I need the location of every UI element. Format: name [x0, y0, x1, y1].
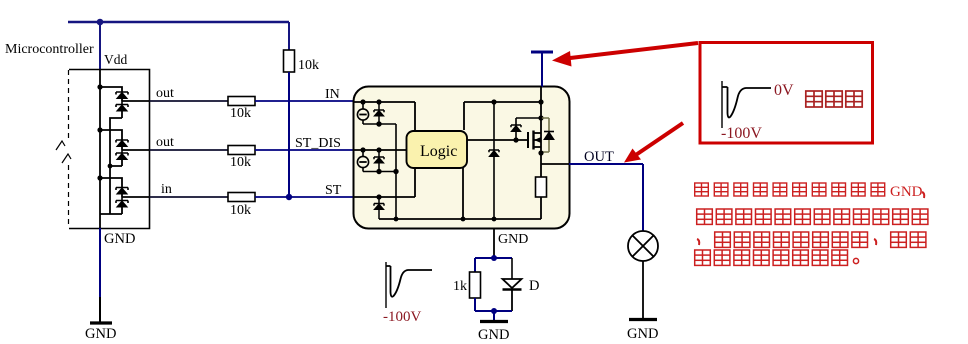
junction ST_DIS / current source 2 [360, 147, 365, 152]
transistor M1 source tap [534, 146, 542, 148]
wire resistor to IN pin [255, 100, 353, 102]
junction IN / clamp diode 1 [376, 99, 381, 104]
microcontroller box solid edges [69, 70, 150, 229]
wire in3 inside box [122, 196, 150, 198]
junction cell2 bottom / sink rail [393, 169, 398, 174]
wire IN inside IC [353, 102, 415, 130]
diode upper cell3 [116, 188, 128, 198]
wire GND branch vertical upper [493, 102, 495, 150]
wire tap cell3 [100, 178, 122, 188]
wire GND pin external [493, 229, 495, 258]
wire cell2 return [110, 166, 122, 214]
wire snubber right drop [511, 258, 513, 279]
transistor M1 gate bar [527, 132, 529, 148]
wire pullup from Vdd rail [288, 22, 290, 50]
svg-text:-100V: -100V [383, 309, 421, 325]
clamp diode D1 [374, 102, 384, 124]
body diode branch wire [541, 118, 549, 152]
wire Vdd drop into microcontroller [99, 22, 101, 70]
text red note line3 [697, 232, 926, 247]
wire resistor to ST_DIS pin [255, 149, 353, 151]
svg-text:10k: 10k [298, 58, 319, 73]
junction cell2 bottom / diode [376, 169, 381, 174]
body diode D6 [544, 132, 554, 140]
diode lower cell2 [116, 150, 128, 166]
junction ST / clamp diode 3 [376, 194, 381, 199]
wire internal bottom rail [379, 218, 541, 220]
wire OUT external [569, 164, 643, 231]
IC driver body U1 [354, 87, 570, 229]
wire tap cell2 [100, 130, 122, 140]
terminal top T-bar [531, 51, 553, 54]
wire snubber top [475, 257, 512, 259]
waveform sketch -100V (bottom) [386, 262, 432, 308]
wire top terminal to IC [541, 52, 543, 87]
wire snubber left drop [474, 258, 476, 272]
svg-text:GND: GND [478, 327, 509, 343]
diode lower cell1 [116, 101, 128, 118]
svg-text:GND: GND [498, 232, 528, 247]
wire out2 inside box [122, 149, 150, 151]
svg-text:out: out [156, 86, 174, 101]
wire tap cell1 [100, 87, 122, 92]
junction top wire / GND branch [491, 99, 496, 104]
svg-text:OUT: OUT [584, 149, 614, 165]
wire cell1 return [110, 118, 122, 166]
wire microcontroller GND lead [99, 228, 101, 297]
svg-text:0V: 0V [774, 82, 794, 99]
wire OUT inside IC [541, 163, 570, 165]
junction cell1 bottom / diode [376, 121, 381, 126]
text red note line2 [697, 209, 928, 224]
wire below 1k [474, 298, 476, 311]
wire cell2 bottom [363, 171, 396, 173]
wire logic to gate [467, 139, 528, 141]
svg-text:out: out [156, 135, 174, 150]
transistor M1 body tap with arrow [534, 139, 542, 141]
wire drain vertical inside IC [540, 86, 542, 164]
node tap cell3 [97, 175, 102, 180]
diode D [503, 279, 522, 311]
svg-text:GND: GND [104, 231, 135, 247]
wire out1 to resistor [150, 100, 229, 102]
diode D4 on GND branch [489, 150, 499, 219]
wire to ground [493, 311, 495, 320]
diode upper cell1 [116, 92, 128, 101]
resistor R 10k pullup [284, 50, 295, 72]
svg-text:IN: IN [325, 87, 340, 102]
svg-text:GND: GND [627, 326, 658, 342]
wire gate clamp riser [516, 118, 541, 140]
wire in3 to resistor [150, 196, 229, 198]
junction gate wire / clamp riser [513, 137, 518, 142]
annotation red box [700, 43, 873, 144]
wire out1 inside box [122, 100, 150, 102]
wire pullup to ST line [288, 72, 290, 197]
wire internal sink rail vertical [395, 124, 397, 219]
node tap cell1 [97, 84, 102, 89]
waveform in red box [722, 81, 771, 128]
clamp diode D2 [374, 150, 384, 172]
svg-text:1k: 1k [453, 279, 467, 294]
microcontroller internal Vdd rail [99, 70, 101, 228]
svg-text:GND: GND [85, 326, 116, 342]
svg-text:D: D [529, 278, 539, 294]
ground lamp [629, 318, 657, 321]
junction snubber bottom [491, 308, 497, 314]
junction drain line / clamp [538, 115, 543, 120]
diode upper cell2 [116, 140, 128, 150]
wire out2 to resistor [150, 149, 229, 151]
logic block [407, 131, 468, 168]
wire ST inside IC [353, 168, 415, 197]
junction ST_DIS / clamp diode 2 [376, 147, 381, 152]
svg-text:ST_DIS: ST_DIS [295, 136, 341, 151]
wire cell3 return to rail [100, 213, 122, 215]
diode D5 gate clamp [511, 125, 521, 132]
wire lamp to ground [642, 261, 644, 318]
transistor M1 channel bar [532, 131, 534, 150]
svg-text:10k: 10k [230, 155, 251, 170]
junction bottom rail / logic return [461, 217, 466, 222]
current source I1 [357, 102, 368, 124]
arrow to OUT wire [624, 123, 683, 163]
wire logic bottom-right return [462, 168, 464, 219]
wire resistor to ST pin [255, 196, 353, 198]
junction source node [538, 150, 543, 155]
junction IN / current source 1 [360, 99, 365, 104]
resistor R 10k (IN) [228, 97, 255, 106]
text 负脉冲 [806, 91, 862, 107]
ground snubber [480, 320, 508, 323]
wire logic top-right riser [464, 102, 541, 130]
transistor M1 drain tap [534, 132, 542, 134]
resistor R 10k (ST_DIS) [228, 146, 255, 155]
junction top wire / drain line [538, 99, 543, 104]
svg-text:Vdd: Vdd [104, 52, 127, 67]
svg-text:-100V: -100V [721, 125, 762, 142]
svg-text:GND: GND [890, 184, 923, 200]
junction cell returns [108, 164, 113, 169]
junction bottom rail / sink rail [394, 217, 399, 222]
svg-text:10k: 10k [230, 106, 251, 121]
wire Vdd top rail [68, 21, 289, 23]
wire cell1 bottom [363, 123, 396, 125]
svg-text:Logic: Logic [420, 143, 457, 160]
node tap cell2 [97, 127, 102, 132]
arrow to top terminal [552, 43, 698, 67]
microcontroller box dashed left edge [68, 70, 70, 228]
junction Vdd rail / microcontroller feed [97, 19, 104, 26]
resistor internal pulldown [540, 164, 542, 177]
clamp diode D3 [374, 197, 384, 219]
diode lower cell3 [116, 197, 128, 214]
svg-text:Microcontroller: Microcontroller [5, 42, 94, 57]
wire snubber bottom [475, 310, 512, 312]
svg-text:10k: 10k [230, 203, 251, 218]
svg-text:ST: ST [325, 183, 342, 198]
junction GND / snubber top [491, 255, 497, 261]
ground microcontroller [90, 321, 112, 324]
wire ST_DIS inside IC [353, 149, 407, 151]
break squiggle on dashed edge [56, 141, 71, 163]
resistor R 10k (ST) [228, 193, 255, 202]
svg-text:in: in [161, 182, 172, 197]
text red note line4 [695, 250, 859, 265]
text red note line1 [695, 183, 925, 200]
resistor R 1k [470, 272, 481, 298]
lamp L1 [628, 231, 658, 261]
junction pullup / ST [286, 194, 292, 200]
junction bottom rail / GND pin [492, 217, 497, 222]
current source I2 [357, 150, 368, 172]
